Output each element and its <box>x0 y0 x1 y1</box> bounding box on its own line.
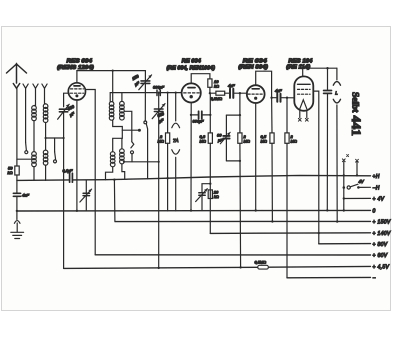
wire V3 cathode <box>255 103 257 211</box>
antenna <box>7 63 27 88</box>
wire V1 filament right <box>85 90 95 255</box>
resistor 0.3M <box>208 133 212 143</box>
transformer T3 secondary coil <box>120 101 125 120</box>
svg-text:300μF: 300μF <box>193 118 205 123</box>
capacitor 4uF output <box>272 97 278 99</box>
svg-text:4nF: 4nF <box>22 193 29 198</box>
resistor 0.5M anode load <box>271 98 273 133</box>
wire T3 secondary top to grid line <box>121 93 123 102</box>
node T1-T2 link <box>45 137 47 139</box>
svg-text:+ 60V: + 60V <box>373 253 388 259</box>
wire to V3 grid <box>233 92 247 94</box>
wire +4V lead <box>344 197 371 199</box>
node 0.5M at 150V bus <box>271 220 273 222</box>
wire H pin down <box>343 162 345 211</box>
node cap to zero bus <box>326 209 328 211</box>
svg-text:4μF: 4μF <box>228 83 235 88</box>
svg-text:RES 094: RES 094 <box>67 58 93 64</box>
wire left column to bus <box>16 175 18 193</box>
svg-text:+H: +H <box>373 174 380 180</box>
svg-text:+ 140V: + 140V <box>373 231 391 237</box>
wire anode column down <box>209 93 211 133</box>
variable capacitor 150pF <box>144 71 146 81</box>
node trimmer loop <box>209 183 211 185</box>
wire grid line start corner <box>110 93 157 102</box>
wire T4 secondary top stub <box>121 138 123 149</box>
resistor 0.5M filament <box>258 265 269 269</box>
wire band tap with end dot <box>122 129 139 131</box>
trimmer capacitor bias <box>85 180 87 193</box>
transformer T2 primary coil <box>32 152 37 167</box>
node bus left end <box>16 210 18 212</box>
svg-text:(RE 084, REN1004): (RE 084, REN1004) <box>167 66 216 72</box>
svg-text:RE 034: RE 034 <box>182 58 201 64</box>
wire V2 cathode down <box>190 103 192 211</box>
wire T1 primary bottom to T2 <box>33 121 35 152</box>
node 2M tap second <box>239 92 241 94</box>
bus minus <box>287 276 371 278</box>
wire T1 secondary bottom <box>45 123 47 151</box>
node V1 cathode at bus <box>76 210 78 212</box>
switch S3 <box>144 121 147 124</box>
wire grid column down <box>63 112 65 269</box>
bus +80V <box>319 243 371 245</box>
svg-text:−: − <box>373 276 376 282</box>
node 4.5V tap a <box>158 267 160 269</box>
bus +60V <box>95 254 370 256</box>
wire 10k down <box>209 87 211 93</box>
wire T3 secondary tap to switch <box>125 111 132 142</box>
svg-text:300pF: 300pF <box>153 85 165 90</box>
wire link to grid line <box>46 137 64 139</box>
bus 0 main earth <box>17 209 371 212</box>
wire V1 cathode down <box>76 100 78 211</box>
wire grid line to V2 <box>160 92 181 94</box>
capacitor 0.1uF <box>70 173 73 182</box>
variable capacitor 500pF <box>59 109 67 112</box>
capacitor speaker coupling <box>327 68 329 90</box>
wire coil tap <box>17 158 34 160</box>
pin x mark H1 <box>342 159 345 162</box>
switch S1 <box>25 142 28 150</box>
pin x marks <box>298 118 301 121</box>
wire V4 screen right <box>313 91 319 244</box>
node 80uF top <box>239 114 241 116</box>
svg-text:MΩ: MΩ <box>244 139 250 144</box>
bus +140V <box>210 232 370 235</box>
wire 4nF to earth bus <box>16 196 18 211</box>
wire V1 anode top bus <box>77 70 145 72</box>
tube V4 RES164 <box>294 76 313 110</box>
pin x mark H2 <box>356 159 359 162</box>
svg-text:Seibt: Seibt <box>350 92 361 113</box>
jack fork C <box>42 84 47 88</box>
node tap left <box>123 161 125 163</box>
ground <box>14 221 20 224</box>
wire jack A down <box>25 88 27 142</box>
svg-text:441: 441 <box>349 116 363 137</box>
resistor 2M second <box>239 93 241 133</box>
node grid column <box>63 137 65 139</box>
wire V4 anode up <box>302 68 304 76</box>
svg-text:kΩ: kΩ <box>214 83 219 88</box>
tube V3 RE034 <box>247 85 265 103</box>
svg-text:(REN 804): (REN 804) <box>238 65 268 71</box>
wire to V4 grid <box>281 97 295 99</box>
svg-text:kΩ: kΩ <box>8 170 13 175</box>
node fuse tap <box>175 92 177 94</box>
node 80uF bottom <box>239 160 241 162</box>
wire T4 bottoms <box>106 164 125 180</box>
trimmer capacitor tone <box>202 184 210 193</box>
svg-text:+ 4V: + 4V <box>373 197 385 203</box>
fuse 7A <box>175 93 177 121</box>
tiny x mark <box>347 155 349 157</box>
loudspeaker jack L <box>336 68 338 80</box>
svg-text:pF: pF <box>217 138 223 143</box>
wire 150V feed <box>113 180 116 222</box>
transformer T4 secondary coil <box>120 149 125 164</box>
svg-text:−H: −H <box>373 186 380 192</box>
wire 0.3M down <box>209 143 211 233</box>
wire V1 anode up <box>76 71 78 83</box>
node 350pF tap <box>158 92 160 94</box>
capacitor 4nF <box>13 193 20 196</box>
bus +4.5V filament <box>64 266 371 268</box>
node 300uF right <box>209 114 211 116</box>
wire T2 bottoms to sub-bus <box>34 165 46 180</box>
jack fork A <box>23 84 28 88</box>
V4 filament pins <box>300 111 307 118</box>
resistor 50k <box>15 166 19 175</box>
node H2 at bus <box>356 174 358 176</box>
svg-text:+ 150V: + 150V <box>373 220 391 226</box>
node tap right <box>158 161 160 163</box>
node +4V <box>343 197 345 199</box>
node anode bus corner <box>112 70 114 72</box>
svg-text:0,2MΩ: 0,2MΩ <box>211 96 223 101</box>
svg-text:0: 0 <box>373 209 376 215</box>
wire earth stub <box>16 211 18 220</box>
capacitor 300pF <box>157 90 160 96</box>
svg-text:kΩ: kΩ <box>214 194 219 199</box>
transformer T1 primary coil <box>32 106 37 121</box>
tube V2 RE034 <box>182 83 201 102</box>
capacitor 4uF coupling <box>230 89 233 98</box>
node 2M tap <box>167 92 169 94</box>
svg-text:+ 4,5V: + 4,5V <box>373 265 390 271</box>
svg-text:0,1μF: 0,1μF <box>63 168 74 173</box>
wire V2 anode <box>191 74 210 84</box>
bus +150V <box>115 220 370 222</box>
transformer T3 primary coil <box>109 102 114 121</box>
svg-text:MΩ: MΩ <box>158 139 164 144</box>
node 140V screen tap <box>318 232 320 234</box>
svg-text:4μF: 4μF <box>275 88 282 93</box>
node H1 at bus <box>343 174 345 176</box>
wire H2 pin down <box>356 162 358 175</box>
wire -H lead <box>358 186 370 188</box>
svg-text:0,5MΩ: 0,5MΩ <box>255 260 267 265</box>
node 300uF left <box>190 114 192 116</box>
node speaker to 150V bus <box>336 220 338 222</box>
node 150V feed top <box>113 179 115 181</box>
transformer T2 secondary coil <box>43 150 48 165</box>
node coupling tap <box>326 67 328 69</box>
wire T3 primary bottom jog to T4 <box>113 120 123 152</box>
wire V4 top bus <box>303 67 337 69</box>
resistor 10k <box>208 79 212 87</box>
wire down to T3 primary <box>112 71 114 102</box>
wire V1 grid left <box>64 93 69 107</box>
wire jack C down <box>45 88 46 104</box>
variable capacitor 350pF <box>158 93 160 269</box>
capacitor 300uF <box>191 114 198 116</box>
node V3 anode branch <box>270 97 272 99</box>
svg-text:MΩ: MΩ <box>200 139 206 144</box>
resistor 20k <box>208 190 212 199</box>
svg-text:MΩ: MΩ <box>261 139 267 144</box>
resistor 0.2M <box>210 92 216 94</box>
node at zero bus <box>343 209 345 211</box>
bus +H filament <box>17 175 371 180</box>
svg-text:MΩ: MΩ <box>291 139 297 144</box>
wire antenna down-lead <box>16 88 18 166</box>
resistor 2M third <box>286 98 288 133</box>
wire jack B down <box>34 88 35 105</box>
wire secondary tap <box>124 161 159 163</box>
transformer T1 secondary coil <box>43 104 48 123</box>
node 4.5V tap b <box>239 266 241 268</box>
node cathode bus <box>190 209 192 211</box>
resistor 2M grid <box>167 93 169 133</box>
node anode node <box>209 92 211 94</box>
trimmer capacitor 80pF branch <box>225 115 227 161</box>
transformer T4 primary coil <box>110 152 115 167</box>
jack fork B <box>33 84 38 88</box>
svg-text:+ 80V: + 80V <box>373 242 388 248</box>
wire V3 anode <box>256 71 272 98</box>
node V3 cathode bus <box>255 209 257 211</box>
switch 4V <box>343 186 346 189</box>
tube V1 RES094 <box>68 83 85 100</box>
switch S2 <box>54 138 56 152</box>
svg-text:7A: 7A <box>173 138 178 143</box>
node V4 grid branch <box>286 97 288 99</box>
